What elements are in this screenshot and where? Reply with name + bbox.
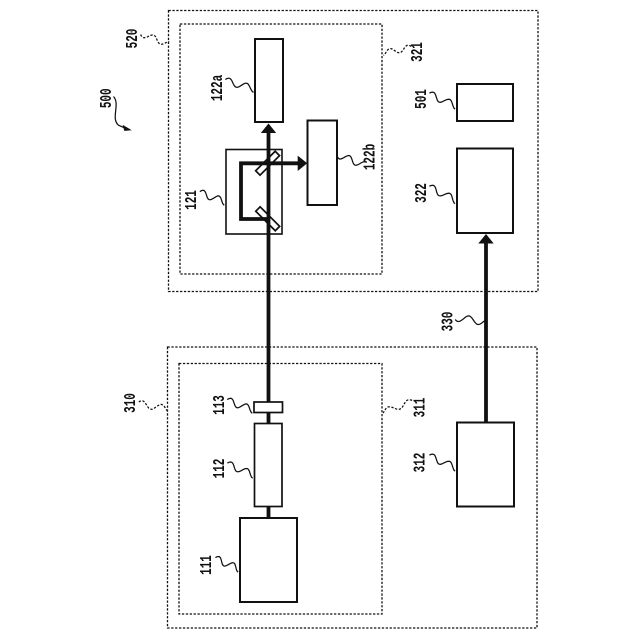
svg-text:122a: 122a — [209, 74, 228, 101]
svg-text:311: 311 — [411, 398, 430, 418]
svg-text:113: 113 — [211, 395, 230, 415]
leader line 312 — [429, 454, 455, 471]
box 122a — [255, 39, 283, 122]
box 112 — [255, 424, 283, 507]
box 312 — [457, 423, 514, 507]
leader line 111 — [215, 557, 238, 573]
wire: main vertical beam from 113 up to 122a — [267, 132, 271, 403]
svg-text:322: 322 — [413, 183, 432, 203]
wire 330: vertical arrow from 312 to 322 — [484, 243, 488, 423]
leader line 121 — [200, 190, 225, 205]
box 111 — [240, 518, 297, 602]
box 113 — [254, 402, 283, 413]
box 121 (beam splitter unit outline) — [226, 150, 282, 235]
svg-text:312: 312 — [412, 453, 431, 473]
svg-text:330: 330 — [439, 312, 458, 332]
box 322 — [457, 149, 513, 234]
dashed box 520 (upper unit) — [169, 11, 539, 292]
svg-text:111: 111 — [198, 555, 217, 575]
leader line 520 — [141, 35, 170, 45]
dashed box 311 (lower inner unit) — [179, 364, 382, 615]
leader arrow for 500 — [114, 97, 127, 129]
arrowhead into 322 — [478, 234, 493, 244]
leader line 122a — [225, 78, 253, 92]
svg-text:501: 501 — [413, 89, 432, 109]
leader line 113 — [227, 398, 252, 413]
svg-text:520: 520 — [124, 29, 143, 49]
wire: link between 113 and 112 — [267, 413, 271, 424]
leader line 112 — [227, 462, 252, 478]
wire: link between 112 and 111 — [267, 507, 271, 519]
svg-text:321: 321 — [409, 42, 428, 62]
arrowhead of 500 leader — [123, 125, 132, 131]
svg-text:310: 310 — [122, 393, 141, 413]
arrowhead into 122b — [298, 156, 308, 171]
leader line 122b — [337, 155, 365, 165]
leader line 330 — [455, 316, 485, 325]
svg-text:112: 112 — [211, 459, 230, 479]
dashed box 321 (upper inner unit) — [180, 24, 382, 274]
leader line 310 — [139, 401, 167, 411]
svg-text:121: 121 — [183, 190, 202, 210]
svg-text:500: 500 — [98, 88, 117, 108]
mirror (upper beam splitter in 121) — [256, 151, 280, 175]
leader line 321 — [384, 45, 412, 55]
box 501 — [457, 84, 513, 121]
leader line 311 — [383, 400, 412, 413]
box 122b — [308, 121, 338, 206]
dashed box 310 (lower unit) — [168, 347, 538, 628]
mirror (lower beam splitter in 121) — [256, 207, 280, 231]
leader line 501 — [429, 92, 455, 109]
arrowhead into 122a — [261, 124, 276, 134]
svg-text:122b: 122b — [361, 144, 380, 170]
leader line 322 — [429, 185, 455, 203]
wire: folded beam loop in 121 and branch toward 122b — [241, 163, 299, 219]
